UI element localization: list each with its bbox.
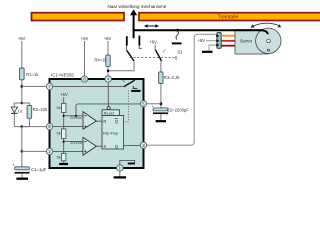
internal resistor 5k (top) bbox=[57, 103, 66, 112]
ground (C2) bbox=[156, 120, 166, 122]
node 1/3Vcc bbox=[63, 141, 65, 143]
svg-text:+: + bbox=[12, 162, 15, 167]
svg-text:R2=22k: R2=22k bbox=[33, 107, 48, 112]
switch S1 pole 1 blade bbox=[127, 51, 134, 61]
svg-text:Servo: Servo bbox=[240, 39, 252, 44]
wire divider top-middle bbox=[63, 113, 65, 129]
wire R1 bottom to node bbox=[21, 80, 23, 103]
wire C2 to ground bbox=[160, 114, 162, 120]
wire divider to ground bbox=[63, 161, 65, 164]
ground (servo supply) bbox=[202, 51, 213, 53]
wire below left contact bbox=[126, 46, 128, 51]
wire comparator2 to S input bbox=[96, 145, 102, 147]
wire 2/3Vcc to comparator 1 bbox=[64, 115, 83, 117]
svg-text:5k: 5k bbox=[57, 155, 61, 160]
wire Q output to pin 3 bbox=[124, 144, 141, 146]
wire R3 bottom to pin5 node bbox=[160, 84, 162, 108]
wire D1 cathode down bbox=[13, 113, 15, 126]
svg-text:R: R bbox=[103, 119, 106, 124]
node: R4/S1/pin4 bbox=[107, 70, 110, 73]
rail left (orange bar) bbox=[32, 13, 125, 21]
wire 1/3Vcc to comparator 2 bbox=[64, 141, 83, 143]
resistor R3=2.2k bbox=[159, 72, 181, 84]
wire branch to pin 5 bbox=[76, 104, 140, 116]
node: D1/R2 top junction bbox=[21, 102, 24, 105]
switch S1 pole 1 : left contact bar bbox=[126, 36, 128, 45]
wire R4 to pin 4 bbox=[107, 66, 109, 76]
discharge switch S bbox=[122, 79, 137, 89]
svg-text:D1: D1 bbox=[18, 108, 24, 113]
wire pin 6 to comparator 1 bbox=[50, 126, 84, 128]
svg-text:5k: 5k bbox=[57, 105, 61, 110]
signal wire pin3 to servo connector bbox=[147, 34, 217, 145]
wire to R2 top bbox=[22, 103, 30, 106]
ground (discharge switch) bbox=[131, 90, 140, 92]
svg-text:+6V: +6V bbox=[18, 36, 26, 41]
wire blade2 to R3 bbox=[160, 61, 162, 72]
wire to pin 7 bbox=[22, 85, 47, 87]
wire to D1 anode bbox=[14, 103, 21, 107]
node: pin 2 junction bbox=[21, 150, 24, 153]
servo wire orange (signal) bbox=[221, 35, 235, 37]
svg-text:R3=2.2k: R3=2.2k bbox=[164, 75, 181, 80]
wire D1/R2 bottoms joined bbox=[14, 126, 29, 128]
svg-text:+6V: +6V bbox=[104, 36, 112, 41]
flexible wire from rod bbox=[176, 31, 178, 40]
capacitor C2=2200uF bbox=[152, 103, 190, 117]
mechanical coupling dashed line S1 bbox=[130, 50, 177, 60]
wire pin 1 to ground bbox=[119, 171, 121, 176]
supply +6V for pin 8 bbox=[81, 36, 89, 76]
svg-text:Naar wisseltong mechanisme: Naar wisseltong mechanisme bbox=[108, 4, 167, 9]
wire C1 to ground bbox=[21, 174, 23, 178]
wire R2 bottom down bbox=[28, 118, 30, 126]
internal wire pin7 to discharge switch bbox=[50, 85, 125, 87]
svg-text:+6V: +6V bbox=[149, 39, 157, 44]
node: R1/pin7 junction bbox=[21, 85, 24, 88]
svg-text:R4=1k: R4=1k bbox=[94, 58, 107, 63]
svg-text:S1: S1 bbox=[177, 50, 183, 55]
svg-text:+6V: +6V bbox=[81, 36, 89, 41]
internal ground of pin 1 bbox=[120, 160, 135, 165]
wire blade1 to R4/pin4 node bbox=[108, 61, 134, 71]
pin 2 bbox=[46, 148, 52, 154]
svg-text:5k: 5k bbox=[57, 130, 61, 135]
wire to pin 2 bbox=[22, 150, 47, 152]
capacitor C1=1uF bbox=[12, 162, 47, 173]
svg-text:2/3Vcc: 2/3Vcc bbox=[70, 115, 82, 120]
internal resistor 5k (middle) bbox=[57, 129, 66, 139]
flip-flop box bbox=[102, 116, 124, 150]
switch S1 pole 2 blade bbox=[156, 50, 162, 61]
pin 8 bbox=[81, 76, 87, 82]
wire down to pin2 node bbox=[21, 127, 23, 152]
rail right / Treintafel bar bbox=[139, 13, 320, 21]
reset box bbox=[102, 110, 119, 116]
ground (C1) bbox=[16, 178, 28, 180]
servo body bbox=[235, 30, 268, 54]
servo wire brown (ground) bbox=[221, 45, 235, 47]
wire down to C1 bbox=[21, 151, 23, 166]
servo rotation arrow bbox=[251, 23, 282, 28]
ground (divider) bbox=[59, 163, 68, 165]
node 2/3Vcc bbox=[63, 115, 65, 117]
movement double arrow bbox=[144, 24, 159, 28]
pin 7 bbox=[46, 83, 52, 89]
resistor R4=1k bbox=[94, 55, 110, 66]
servo wire red (+6V) bbox=[221, 40, 235, 42]
resistor R1=1k bbox=[20, 68, 40, 80]
wire servo connector to ground bbox=[209, 45, 217, 51]
svg-text:+6V: +6V bbox=[60, 92, 68, 97]
supply +6V for R1 bbox=[18, 36, 26, 68]
actuating rod (wire to servo) bbox=[133, 30, 268, 34]
pin 3 bbox=[140, 142, 146, 148]
svg-text:S: S bbox=[103, 144, 106, 149]
wire to pin 6 bbox=[22, 126, 47, 128]
contact pad under flexible wire bbox=[172, 42, 182, 44]
comparator 2/3Vcc (threshold) bbox=[70, 112, 96, 130]
arrow to switch-tongue mechanism bbox=[130, 9, 137, 38]
reset inverter bubble bbox=[107, 107, 110, 110]
comparator 1/3Vcc (trigger) bbox=[70, 137, 96, 155]
pin 6 bbox=[46, 123, 52, 129]
dotted control link to flip-flop bbox=[124, 91, 129, 122]
resistor R2=22k bbox=[27, 105, 48, 118]
pin 1 bbox=[117, 165, 123, 171]
svg-text:Flip-Flop: Flip-Flop bbox=[103, 131, 119, 136]
wire comparator1 to R input bbox=[96, 120, 102, 122]
junction on rod bbox=[176, 29, 179, 32]
wire pin 2 to comparator 2 bbox=[50, 150, 84, 152]
servo connector bbox=[216, 33, 221, 49]
servo disc bbox=[256, 28, 281, 53]
open contact foot below right bar bbox=[139, 46, 142, 49]
svg-text:C1=1µF: C1=1µF bbox=[31, 167, 47, 172]
supply +6V for R4 bbox=[104, 36, 112, 55]
switch S1 pole 1 : right contact bar bbox=[138, 36, 140, 46]
IC1 NE555 body bbox=[50, 72, 144, 168]
svg-text:+6V: +6V bbox=[198, 38, 206, 43]
internal divider supply +6V bbox=[60, 92, 68, 103]
svg-text:IC1=NE555: IC1=NE555 bbox=[51, 72, 74, 77]
svg-text:C2=2200µF: C2=2200µF bbox=[167, 108, 190, 113]
svg-text:R1=1k: R1=1k bbox=[26, 72, 39, 77]
supply +6V for S1 pole 2 bbox=[149, 39, 157, 50]
supply +6V for servo bbox=[198, 38, 217, 43]
node: pin5/C2 bbox=[160, 102, 163, 105]
internal resistor 5k (bottom) bbox=[57, 153, 66, 161]
diode D1 bbox=[11, 107, 24, 113]
svg-text:1/3Vcc: 1/3Vcc bbox=[70, 140, 82, 145]
pin 4 bbox=[105, 76, 111, 82]
svg-text:Reset: Reset bbox=[104, 110, 115, 115]
internal wire pin 4 to reset bbox=[107, 82, 109, 107]
pin 5 bbox=[140, 101, 146, 107]
ground (pin 1) bbox=[114, 176, 127, 178]
wire pin 5 to node bbox=[147, 103, 161, 105]
node: pins 6 junction bbox=[21, 125, 24, 128]
svg-text:Treintafel: Treintafel bbox=[218, 15, 239, 21]
wire divider middle-bottom bbox=[63, 139, 65, 154]
node branch to pin 5 bbox=[75, 115, 77, 117]
